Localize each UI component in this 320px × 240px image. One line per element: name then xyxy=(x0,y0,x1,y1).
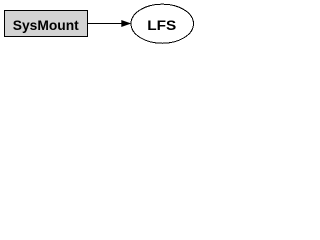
svg-text:SysMount: SysMount xyxy=(13,17,79,33)
svg-text:LFS: LFS xyxy=(147,17,176,33)
